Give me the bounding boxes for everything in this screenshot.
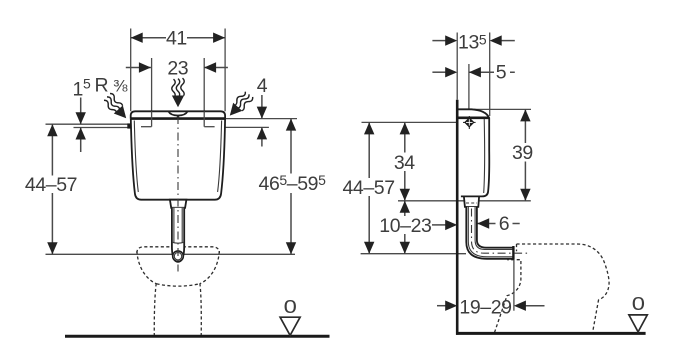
svg-text:10–23: 10–23: [379, 215, 431, 237]
svg-text:41: 41: [166, 27, 187, 49]
svg-text:0: 0: [284, 296, 297, 317]
svg-text:4: 4: [257, 75, 268, 97]
svg-text:0: 0: [632, 293, 645, 314]
svg-text:44–57: 44–57: [342, 177, 394, 199]
svg-text:39: 39: [512, 142, 533, 164]
svg-text:44–57: 44–57: [25, 174, 77, 196]
svg-text:5: 5: [496, 62, 507, 84]
svg-text:19–29: 19–29: [459, 297, 511, 319]
svg-text:34: 34: [394, 152, 415, 174]
svg-text:465–595: 465–595: [259, 172, 327, 195]
svg-text:23: 23: [167, 57, 188, 79]
svg-text:6: 6: [499, 213, 509, 235]
